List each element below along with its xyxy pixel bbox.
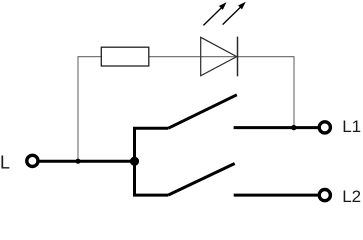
node: resistor branch junction (75, 159, 80, 164)
LED D1 cathode bar (237, 37, 239, 77)
node: main switch junction (130, 157, 139, 166)
LED D1 triangle (201, 37, 237, 76)
switch blade S2 (lower) (168, 164, 235, 196)
resistor R (101, 47, 149, 66)
LED light arrow 1 (203, 2, 226, 25)
svg-text:L: L (0, 153, 10, 173)
wire: L2 contact line (thick) (234, 194, 318, 197)
switch blade S1 (upper) (168, 95, 237, 128)
terminal L2 (319, 190, 330, 201)
wire: L terminal to junction (thick) (40, 160, 135, 163)
wire: L1 contact line (thick) (234, 126, 318, 129)
wire: switch common bracket (thick) (135, 128, 169, 195)
wire resistor to LED through to right drop (149, 57, 294, 128)
LED light arrow 2 (223, 2, 246, 25)
svg-text:L2: L2 (342, 187, 361, 206)
terminal L1 (319, 122, 330, 133)
node: LED to L1 junction (291, 125, 296, 130)
wire from resistor branch: junction up, to resistor (78, 57, 101, 161)
terminal L (27, 155, 38, 166)
svg-text:L1: L1 (342, 117, 361, 136)
